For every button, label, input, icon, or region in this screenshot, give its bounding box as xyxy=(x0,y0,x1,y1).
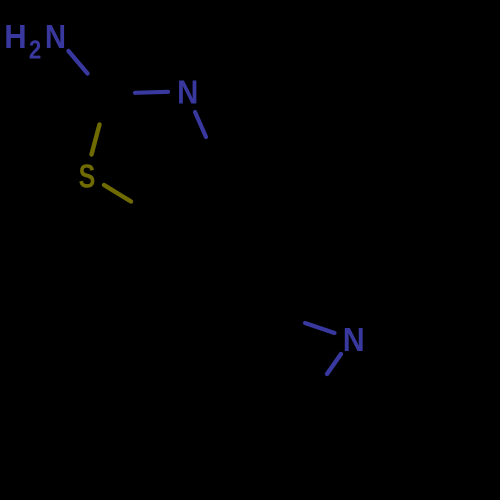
svg-text:S: S xyxy=(79,158,96,195)
bond C2-C(skeleton) invisible carbon bonds (carbon colored, black on black) xyxy=(161,174,303,410)
svg-text:N: N xyxy=(177,74,198,111)
svg-text:H: H xyxy=(4,18,26,55)
bond C4-C5 xyxy=(161,174,226,221)
bond N(py)-Cb, N half (blue) xyxy=(327,354,341,374)
bond N(py)-Ca, N half (blue) xyxy=(305,323,335,333)
svg-text:N: N xyxy=(45,18,66,55)
svg-text:2: 2 xyxy=(29,36,41,65)
bond C2-S1, S1 half (dark yellow) xyxy=(92,125,100,155)
bond N(amine)-C2, amine half (blue) xyxy=(69,51,88,74)
bond Ca-ring xyxy=(270,311,303,410)
bond N3-C4, N3 half (blue) xyxy=(195,112,206,137)
bond C5-C6 linker xyxy=(226,174,270,311)
svg-text:N: N xyxy=(343,321,365,359)
bond C2-N3, N3 half (blue) xyxy=(135,92,168,93)
bond S1-C5, S1 half (dark yellow) xyxy=(104,185,131,202)
